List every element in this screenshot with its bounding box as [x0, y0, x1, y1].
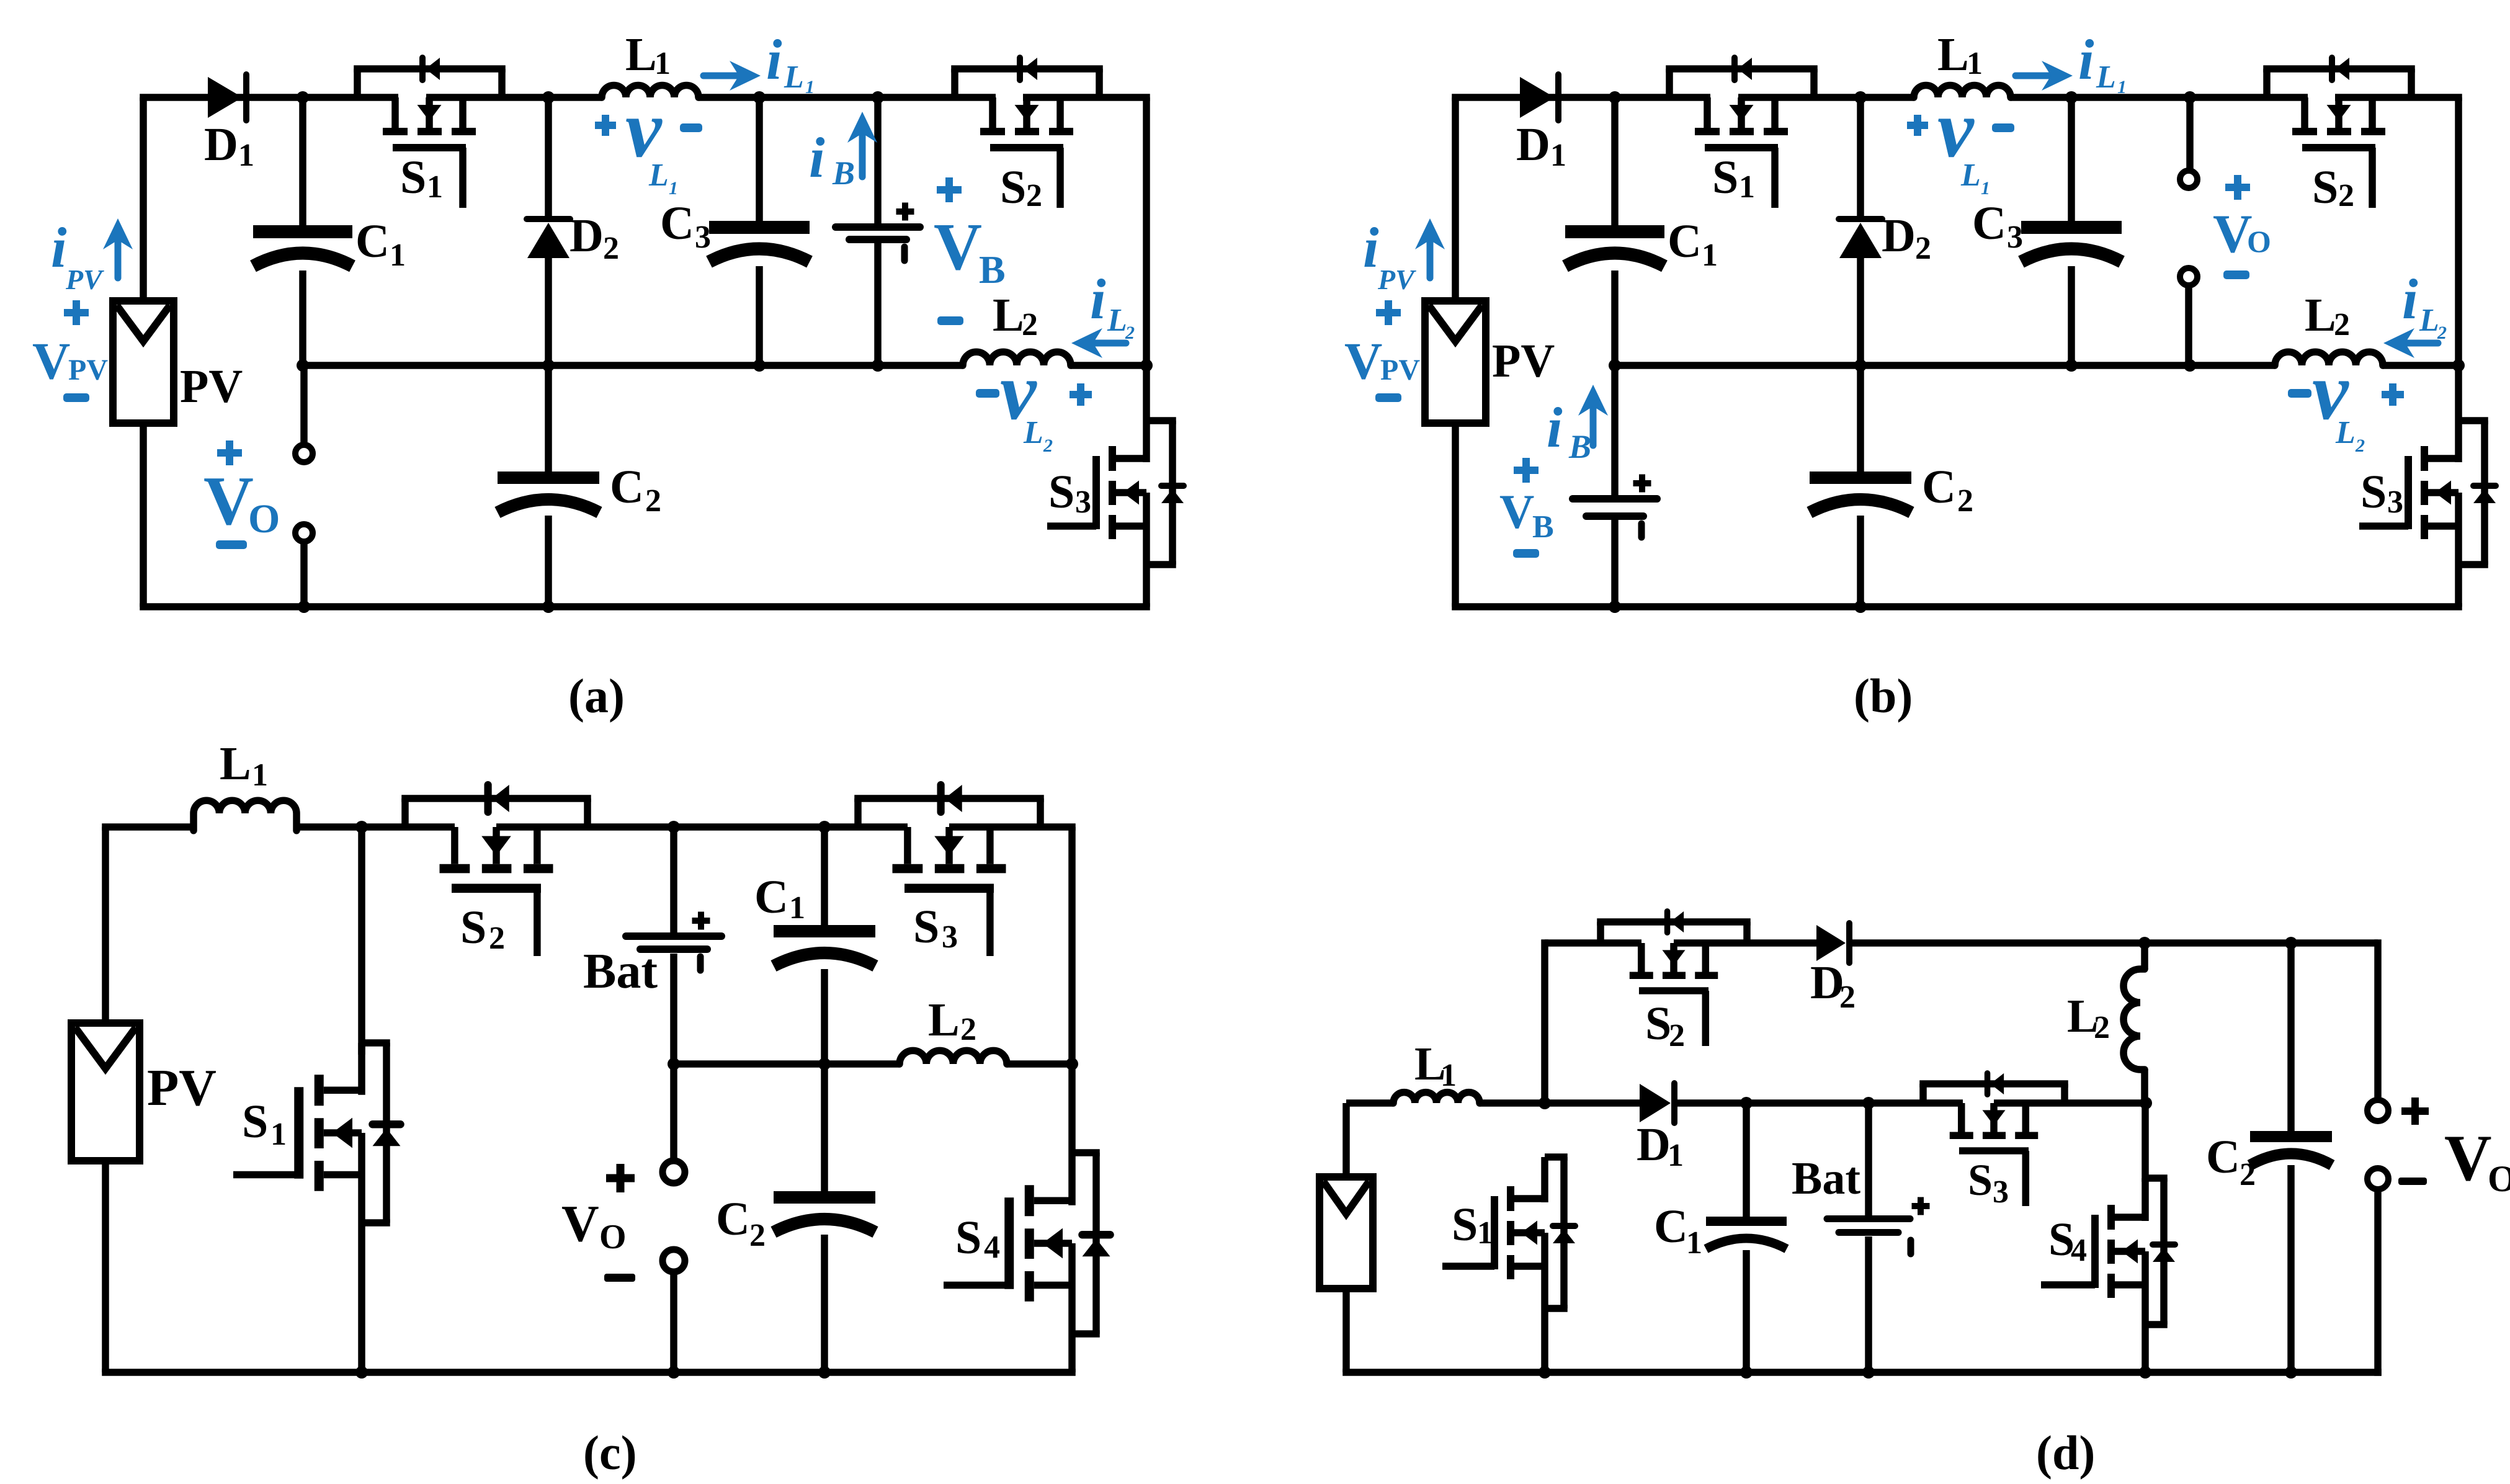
svg-text:3: 3: [2007, 220, 2023, 255]
label PV: [1492, 335, 1555, 387]
label S1: [1712, 151, 1755, 205]
label C1: [754, 871, 805, 926]
wire top rail (L1 to S2): [699, 94, 996, 101]
label C1: [1668, 215, 1718, 273]
junction (D2 branch top): [1854, 91, 1867, 104]
label - (V_PV): [1375, 393, 1401, 402]
label v_L2 index: [1043, 436, 1053, 456]
svg-text:i: i: [1090, 267, 1106, 331]
label i_PV: [51, 216, 104, 295]
label (b): [1854, 669, 1913, 723]
transistor S4 (MOSFET, vertical): [2041, 1178, 2175, 1325]
label + (v_L1): [595, 115, 616, 136]
inductor L2: [963, 352, 1071, 365]
label v_L2 index: [2355, 436, 2365, 456]
label PV: [147, 1059, 217, 1117]
wire C3 branch upper: [2068, 97, 2075, 221]
wire battery branch upper: [874, 97, 882, 223]
wire left rail lower: [1452, 423, 1459, 607]
junction (C3 bottom node): [2065, 359, 2078, 372]
svg-text:B: B: [1568, 428, 1591, 465]
diode D2: [1839, 219, 1882, 258]
svg-text:B: B: [1532, 509, 1554, 545]
wire C3 branch lower: [2068, 266, 2075, 365]
wire top rail (S1 to L1): [1738, 94, 1914, 101]
wire left rail lower: [102, 1161, 109, 1372]
junction (C1 bottom node): [297, 359, 309, 372]
label - (V_O): [216, 540, 247, 549]
capacitor C1: [253, 225, 352, 266]
svg-text:4: 4: [984, 1230, 1000, 1265]
label D2: [569, 210, 619, 266]
transistor S3 (MOSFET, horizontal): [1919, 1073, 2068, 1206]
terminal V_O +: [2180, 171, 2197, 188]
inductor L1: [194, 800, 297, 831]
label i_B: [809, 126, 855, 192]
label i_L1 index: [2117, 77, 2127, 97]
terminal V_O +: [295, 445, 313, 462]
PV source PV: [71, 1023, 140, 1161]
svg-text:D: D: [1882, 210, 1916, 262]
junction (D1 cathode node): [1609, 91, 1621, 104]
wire D2 branch lower: [1857, 258, 1864, 365]
svg-text:L: L: [784, 60, 804, 95]
svg-text:1: 1: [238, 138, 254, 173]
label + (V_O): [217, 440, 242, 465]
svg-text:1: 1: [1702, 238, 1718, 273]
wire top rail (L1 to S2): [297, 823, 455, 831]
wire D2 branch upper: [1857, 97, 1864, 220]
svg-text:L: L: [2305, 289, 2336, 341]
svg-text:1: 1: [2117, 77, 2127, 97]
svg-text:O: O: [248, 496, 280, 542]
junction (C3 bottom node): [753, 359, 766, 372]
capacitor C1: [1565, 225, 1664, 266]
wire C3 branch upper: [756, 97, 763, 221]
transistor S3 (MOSFET, vertical): [2359, 421, 2496, 565]
wire top rail (S2 to right): [2335, 94, 2462, 101]
junction (C3 branch top): [753, 91, 766, 104]
label - (v_L1): [680, 123, 702, 132]
svg-text:2: 2: [1125, 323, 1135, 343]
wire battery branch upper: [1611, 365, 1619, 495]
wire right rail upper: [1068, 827, 1076, 1153]
wire L2 upper: [2141, 943, 2148, 969]
svg-text:D: D: [569, 210, 604, 262]
svg-text:C: C: [355, 215, 390, 267]
svg-text:2: 2: [2334, 307, 2350, 342]
svg-text:i: i: [2402, 267, 2418, 331]
svg-text:L: L: [625, 29, 657, 81]
wire C1 branch lower: [1611, 270, 1619, 365]
arrow i_L2: [2405, 340, 2438, 347]
label PV: [180, 360, 243, 413]
svg-text:i: i: [2078, 28, 2094, 91]
label S3: [913, 901, 958, 955]
label C1: [355, 215, 406, 273]
svg-text:PV: PV: [180, 360, 243, 413]
label S2: [460, 901, 505, 956]
arrow i_L1: [2016, 73, 2051, 79]
svg-text:V: V: [32, 332, 70, 390]
svg-text:L: L: [220, 738, 251, 790]
svg-text:L: L: [2096, 60, 2116, 95]
junction (branch top): [2184, 91, 2196, 104]
label + (V_O): [2225, 175, 2250, 200]
label i_L2: [1090, 267, 1127, 338]
label - (v_L2): [2288, 389, 2311, 398]
label S4: [2048, 1214, 2087, 1268]
arrow i_B: [1590, 406, 1597, 445]
label + (V_B): [937, 177, 962, 202]
junction (C2 bottom node): [2285, 1366, 2297, 1379]
svg-text:2: 2: [645, 483, 661, 519]
label C3: [1972, 197, 2023, 255]
label i_L2: [2402, 267, 2439, 338]
wire S1 source to bottom: [1541, 1308, 1548, 1372]
transistor S1 (MOSFET, vertical): [1442, 1157, 1575, 1308]
wire L2 lower: [2141, 1070, 2148, 1103]
label V_O: [2213, 204, 2271, 264]
transistor S2 (MOSFET, horizontal): [2263, 58, 2415, 208]
svg-text:3: 3: [695, 220, 711, 255]
transistor S2 (MOSFET, horizontal): [951, 58, 1103, 208]
inductor L2: [900, 1050, 1007, 1064]
svg-text:C: C: [1922, 461, 1956, 513]
svg-text:1: 1: [270, 1117, 287, 1152]
wire top rail (S2 to D2): [1674, 939, 1818, 947]
arrow i_L2: [1093, 340, 1126, 347]
svg-text:2: 2: [1043, 436, 1053, 456]
label D1: [204, 118, 254, 173]
svg-text:V: V: [1499, 485, 1534, 539]
svg-text:L: L: [2335, 415, 2356, 450]
label S1: [1452, 1199, 1493, 1251]
svg-text:3: 3: [2387, 485, 2403, 520]
diode D2: [527, 219, 570, 258]
label V_O: [203, 463, 280, 542]
label V_B: [934, 210, 1006, 292]
svg-text:B: B: [832, 154, 855, 192]
svg-text:1: 1: [1686, 1225, 1702, 1261]
svg-text:3: 3: [1075, 485, 1091, 520]
wire C2 branch upper: [545, 365, 552, 472]
svg-text:L: L: [1937, 29, 1969, 81]
svg-text:C: C: [1668, 215, 1702, 267]
label Bat: [1792, 1153, 1860, 1204]
diode D1: [1640, 1083, 1674, 1123]
label - (V_PV): [63, 393, 89, 402]
wire left rail upper: [140, 97, 147, 301]
wire C1 branch upper: [1611, 97, 1619, 225]
label - (V_B): [1513, 549, 1539, 558]
arrow i_PV: [115, 240, 122, 278]
svg-text:PV: PV: [68, 354, 108, 387]
battery Bat: [626, 912, 721, 971]
svg-text:L: L: [1023, 415, 1043, 450]
label V_B: [1499, 485, 1554, 545]
svg-text:2: 2: [1026, 178, 1042, 213]
junction (D1 cathode node): [297, 91, 309, 104]
junction (C3 branch top): [2065, 91, 2078, 104]
junction (branch bottom): [872, 359, 884, 372]
wire S2 drain riser: [1541, 939, 1548, 1103]
label - (v_L1): [1992, 123, 2014, 132]
svg-text:L: L: [993, 289, 1024, 341]
junction (D2/C2 node): [542, 359, 555, 372]
svg-text:1: 1: [1668, 1138, 1684, 1173]
svg-text:1: 1: [1550, 138, 1566, 173]
label (c): [583, 1426, 637, 1480]
transistor S1 (MOSFET, horizontal): [1666, 58, 1818, 208]
svg-text:i: i: [1547, 396, 1563, 459]
wire C1 branch lower: [299, 270, 306, 365]
transistor S1 (MOSFET, vertical): [233, 1043, 401, 1223]
junction (S1 bottom node): [355, 1366, 368, 1379]
svg-text:S: S: [1645, 998, 1671, 1050]
junction (branch bottom): [2184, 359, 2196, 372]
wire C1 branch lower: [1743, 1250, 1750, 1372]
svg-text:O: O: [599, 1218, 627, 1256]
svg-text:2: 2: [2355, 436, 2365, 456]
svg-text:C: C: [1654, 1200, 1688, 1253]
label S1: [242, 1096, 287, 1152]
svg-text:2: 2: [2437, 323, 2447, 343]
svg-text:S: S: [460, 901, 486, 954]
svg-text:1: 1: [1477, 1215, 1493, 1251]
capacitor C2: [2250, 1131, 2332, 1165]
label S3: [1048, 466, 1091, 520]
label v_L1: [625, 83, 669, 193]
wire battery branch lower: [1611, 520, 1619, 607]
junction (Bat bottom node): [1862, 1366, 1875, 1379]
junction (battery bottom node): [668, 1058, 680, 1070]
svg-text:1: 1: [1440, 1058, 1457, 1093]
capacitor C2: [498, 472, 599, 512]
svg-text:S: S: [1000, 161, 1026, 213]
label i_B: [1547, 396, 1591, 465]
svg-text:1: 1: [789, 890, 805, 926]
label S1: [400, 151, 443, 205]
svg-text:V: V: [561, 1195, 599, 1253]
svg-text:D: D: [1637, 1119, 1671, 1171]
label S2: [2312, 161, 2354, 213]
label i_L2 index: [1125, 323, 1135, 343]
wire C2 branch lower: [821, 1235, 828, 1372]
capacitor C3: [2021, 221, 2122, 262]
junction (output bottom node): [298, 601, 310, 613]
svg-text:i: i: [766, 28, 782, 91]
svg-text:V: V: [1344, 332, 1382, 390]
svg-text:2: 2: [960, 1012, 976, 1047]
svg-text:C: C: [754, 871, 788, 923]
label v_L1 index: [669, 178, 678, 199]
junction (Bat top node): [1862, 1097, 1875, 1109]
svg-text:1: 1: [1967, 46, 1983, 81]
wire C2 branch lower: [545, 516, 552, 607]
svg-text:S: S: [913, 901, 939, 953]
junction (C2 bottom node): [1854, 601, 1867, 613]
capacitor C2: [774, 1191, 875, 1232]
svg-text:PV: PV: [1377, 264, 1416, 295]
terminal V_O -: [2180, 268, 2197, 285]
svg-text:S: S: [1968, 1155, 1993, 1205]
wire right rail lower: [1068, 1334, 1076, 1372]
wire battery branch lower: [874, 243, 882, 365]
wire C2 branch upper: [1857, 365, 1864, 472]
svg-text:PV: PV: [1492, 335, 1555, 387]
svg-text:1: 1: [390, 238, 406, 273]
svg-text:L: L: [1107, 303, 1127, 338]
label + (V_PV): [64, 300, 89, 325]
wire top rail (D2 to right): [1851, 939, 2378, 947]
label L2: [928, 994, 976, 1047]
terminal V_O -: [295, 524, 313, 542]
junction (L2 right node): [1066, 1058, 1078, 1070]
wire top rail (S3 to right): [949, 823, 1076, 831]
wire top rail (S2 to right): [1023, 94, 1150, 101]
wire middle rail (right): [1007, 1060, 1072, 1068]
junction (C2 bottom node): [542, 601, 555, 613]
junction (C1 top node): [1740, 1097, 1753, 1109]
label + (V_B): [1514, 458, 1539, 483]
junction (C1 bottom node): [818, 1058, 831, 1070]
junction (branch top): [872, 91, 884, 104]
junction (S1 top node): [1539, 1097, 1551, 1109]
svg-text:3: 3: [942, 919, 958, 955]
svg-text:V: V: [203, 463, 254, 540]
wire top rail (left): [1452, 94, 1710, 101]
wire battery branch lower: [670, 954, 677, 1064]
wire D2 branch lower: [545, 258, 552, 365]
junction (D2 branch top): [542, 91, 555, 104]
inductor L2: [2124, 969, 2145, 1070]
svg-text:PV: PV: [1380, 354, 1420, 387]
transistor S1 (MOSFET, horizontal): [354, 58, 506, 208]
wire middle rail (left): [674, 1060, 900, 1068]
wire bottom rail: [1342, 1369, 2382, 1376]
svg-text:2: 2: [1022, 307, 1038, 342]
svg-text:(a): (a): [568, 669, 625, 723]
label C3: [660, 197, 711, 255]
capacitor C2: [1810, 472, 1911, 512]
wire top rail (left): [102, 823, 194, 831]
svg-text:S: S: [1712, 151, 1738, 203]
wire output branch upper: [2374, 939, 2382, 1100]
junction (L2 top node): [2138, 937, 2151, 949]
battery V_B: [836, 203, 920, 261]
wire output branch lower: [300, 544, 308, 607]
svg-text:O: O: [2488, 1158, 2510, 1199]
junction (output bottom node): [668, 1366, 680, 1379]
svg-text:i: i: [51, 216, 67, 279]
label C2: [716, 1193, 766, 1253]
wire middle rail (right): [2383, 362, 2459, 369]
PV source PV: [1425, 301, 1486, 423]
svg-text:C: C: [660, 197, 694, 249]
arrow i_L1: [703, 73, 739, 79]
label + (V_O): [606, 1164, 635, 1192]
diode D2: [1816, 923, 1849, 963]
label V_O: [2444, 1122, 2510, 1199]
svg-text:C: C: [716, 1193, 750, 1245]
label S4: [955, 1212, 1000, 1265]
svg-text:(c): (c): [583, 1426, 637, 1480]
wire left rail upper: [1452, 97, 1459, 301]
label S2: [1000, 161, 1042, 213]
svg-text:D: D: [204, 118, 238, 171]
svg-text:2: 2: [2240, 1157, 2256, 1192]
label L2: [993, 289, 1038, 342]
svg-text:S: S: [242, 1096, 268, 1148]
label C2: [610, 461, 661, 519]
wire middle rail (D1 to S3): [1675, 1099, 1963, 1107]
wire right rail lower: [2455, 565, 2462, 607]
wire C1 branch upper: [821, 827, 828, 925]
wire middle rail (left): [1615, 362, 2275, 369]
arrow i_B: [859, 133, 866, 177]
wire bottom rail: [102, 1369, 1076, 1376]
svg-text:S: S: [2360, 466, 2387, 518]
wire bottom rail: [140, 603, 1150, 610]
transistor S2 (MOSFET, horizontal): [401, 785, 591, 956]
label + (v_L2): [1070, 383, 1092, 406]
PV source PV: [113, 301, 174, 423]
wire C2 branch lower: [1857, 516, 1864, 607]
svg-text:3: 3: [1993, 1174, 2009, 1210]
svg-text:1: 1: [427, 169, 443, 205]
svg-text:4: 4: [2071, 1233, 2087, 1268]
svg-text:S: S: [955, 1212, 981, 1264]
label + (V_O): [2401, 1097, 2429, 1125]
svg-text:S: S: [1452, 1199, 1478, 1251]
svg-text:i: i: [1363, 216, 1379, 279]
label D2: [1810, 957, 1856, 1015]
wire top rail (L1 to S2): [2011, 94, 2308, 101]
wire output branch upper: [300, 365, 308, 442]
label S3: [2360, 466, 2403, 520]
junction (S1 bottom node): [1539, 1366, 1551, 1379]
label L1: [220, 738, 268, 793]
terminal V_O -: [663, 1249, 685, 1272]
wire battery branch upper: [670, 827, 677, 932]
wire output branch upper: [2186, 97, 2194, 171]
svg-text:Bat: Bat: [1792, 1153, 1860, 1204]
battery V_B: [1573, 475, 1657, 538]
capacitor C3: [709, 221, 810, 262]
junction (C1 branch top): [818, 821, 831, 833]
wire C3 branch lower: [756, 266, 763, 365]
junction (L2 bottom node): [2140, 1097, 2152, 1109]
svg-text:C: C: [1972, 197, 2006, 249]
inductor L1: [1914, 86, 2011, 98]
svg-text:L: L: [2419, 303, 2439, 338]
wire output branch upper: [670, 1064, 677, 1159]
label - (v_L2): [976, 389, 999, 398]
wire PV upper: [1342, 1103, 1350, 1177]
svg-text:(d): (d): [2036, 1426, 2095, 1480]
svg-text:2: 2: [1669, 1018, 1685, 1053]
transistor S4 (MOSFET, vertical): [944, 1153, 1110, 1334]
battery Bat: [1827, 1197, 1930, 1254]
label S2: [1645, 998, 1685, 1053]
label - (V_O): [604, 1274, 635, 1282]
label v_L2: [2312, 346, 2356, 450]
label + (V_PV): [1376, 300, 1401, 325]
wire D2 branch upper: [545, 97, 552, 220]
terminal V_O -: [2367, 1168, 2388, 1189]
svg-text:S: S: [1048, 466, 1074, 518]
